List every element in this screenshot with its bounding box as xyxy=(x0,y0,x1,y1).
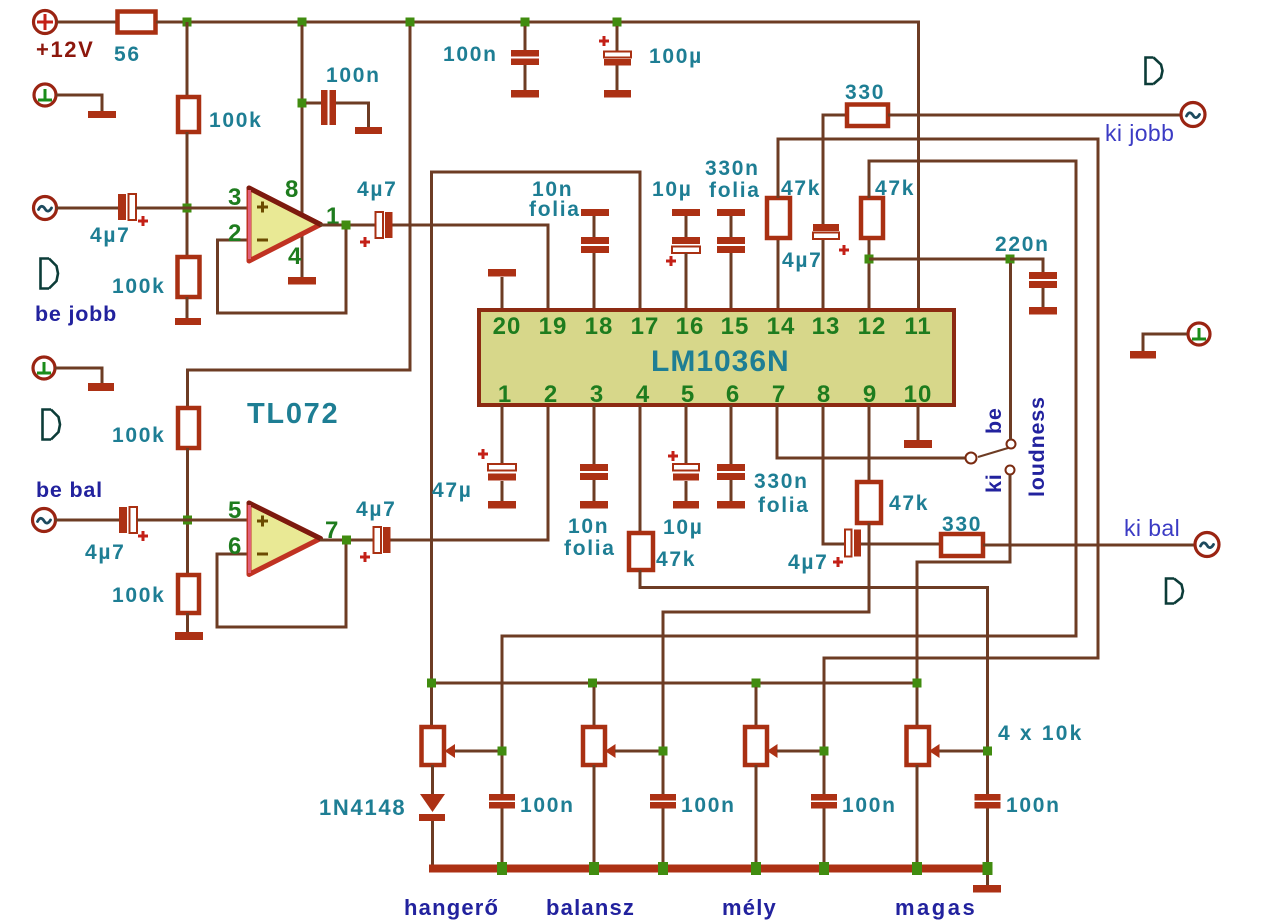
svg-text:LM1036N: LM1036N xyxy=(651,345,790,378)
arrow icon output left xyxy=(1166,579,1183,604)
IC LM1036N body xyxy=(479,310,954,405)
output circle ki jobb xyxy=(1181,103,1205,127)
node junction xyxy=(298,99,307,108)
svg-text:4 x 10k: 4 x 10k xyxy=(998,722,1083,745)
svg-text:15: 15 xyxy=(721,313,750,340)
node junction xyxy=(820,747,829,756)
svg-text:ki bal: ki bal xyxy=(1124,515,1180,541)
wire switch be to loudness tap xyxy=(1009,263,1012,440)
svg-text:folia: folia xyxy=(758,494,810,517)
wire pin 4 to treble pot wiper xyxy=(640,570,988,794)
svg-text:+12V: +12V xyxy=(36,37,94,62)
capacitor 100n (top rail) xyxy=(511,26,539,98)
wire pin 4 riser xyxy=(639,405,642,533)
wire pin 17 to bottom pots bus xyxy=(432,172,641,727)
svg-text:11: 11 xyxy=(904,313,931,340)
pin numbers bottom row 1..10 xyxy=(498,381,933,408)
wire to ki bal xyxy=(983,544,1195,547)
wire op-amp1 output xyxy=(320,224,375,227)
wire xyxy=(823,808,826,868)
svg-text:4µ7: 4µ7 xyxy=(90,224,131,247)
capacitor 4u7 (pin 13 output) xyxy=(813,224,849,255)
capacitor 4u7 input right xyxy=(118,194,148,226)
ground bar xyxy=(88,111,116,118)
svg-text:330n: 330n xyxy=(754,470,809,493)
svg-text:4µ7: 4µ7 xyxy=(788,551,829,574)
resistor 100k (upper left ch) xyxy=(178,408,199,448)
resistor 47k (pin 14) xyxy=(767,198,790,238)
svg-text:be: be xyxy=(982,407,1006,434)
svg-text:1: 1 xyxy=(498,381,512,408)
capacitor 330n folia (pin 6) xyxy=(717,405,745,509)
svg-text:4: 4 xyxy=(288,243,302,270)
diode 1N4148 xyxy=(419,765,445,866)
svg-text:100n: 100n xyxy=(1006,794,1061,817)
svg-text:16: 16 xyxy=(676,313,705,340)
svg-text:folia: folia xyxy=(564,537,616,560)
op-amp U1A triangle xyxy=(249,188,321,261)
node junction xyxy=(497,862,507,875)
svg-text:5: 5 xyxy=(228,497,242,524)
wire pin 10 xyxy=(917,405,920,440)
node junction xyxy=(183,18,192,27)
node junction xyxy=(298,18,307,27)
capacitor 4u7 output left xyxy=(360,527,391,562)
node junction xyxy=(406,18,415,27)
svg-text:100k: 100k xyxy=(112,424,166,447)
wire pin 8 riser xyxy=(823,405,845,544)
svg-text:17: 17 xyxy=(631,313,660,340)
ground terminal mid right xyxy=(1188,323,1210,345)
node junction xyxy=(183,204,192,213)
svg-text:2: 2 xyxy=(544,381,558,408)
svg-text:1N4148: 1N4148 xyxy=(319,795,406,820)
svg-text:10n: 10n xyxy=(568,515,609,538)
wire xyxy=(55,519,119,522)
wire pin 7 to loudness switch xyxy=(777,405,966,458)
wire xyxy=(986,808,989,885)
svg-text:4: 4 xyxy=(636,381,650,408)
node junction xyxy=(819,862,829,875)
svg-text:folia: folia xyxy=(529,198,581,221)
capacitor 100n (balance wiper) xyxy=(650,794,676,809)
wire op-amp1 output to IC pin 19 xyxy=(393,225,549,310)
resistor 100k (lower right ch) xyxy=(178,257,200,297)
wire xyxy=(1143,334,1187,351)
wire pin 12 to volume pot wiper xyxy=(502,161,1076,794)
wire xyxy=(186,132,189,257)
wire op-amp supply riser pin 8 and ground xyxy=(301,25,304,277)
capacitor 100u electrolytic (top rail) xyxy=(599,26,631,98)
potentiometer P2 balansz xyxy=(583,687,659,866)
wire loudness tap xyxy=(869,258,1010,261)
node junction xyxy=(342,536,351,545)
ground bus xyxy=(429,865,991,873)
ground bar xyxy=(175,632,203,640)
svg-text:100k: 100k xyxy=(112,275,166,298)
svg-text:ki: ki xyxy=(982,473,1006,493)
wire to op-amp pin 3 xyxy=(136,207,249,210)
wire xyxy=(186,448,189,575)
svg-text:loudness: loudness xyxy=(1025,396,1049,497)
svg-text:balansz: balansz xyxy=(546,895,635,920)
svg-text:330: 330 xyxy=(845,81,885,104)
node junction xyxy=(498,747,507,756)
svg-text:100k: 100k xyxy=(112,584,166,607)
node junction xyxy=(865,255,874,264)
wire op-amp1 feedback pin 2 xyxy=(218,225,347,313)
ground terminal left mid xyxy=(33,357,55,379)
capacitor 330n folia (pin 15) xyxy=(717,209,745,310)
ground terminal top left xyxy=(34,84,56,106)
wire xyxy=(55,368,102,383)
ground bar xyxy=(175,318,201,325)
node junction xyxy=(751,862,761,875)
capacitor 100n (bass wiper) xyxy=(811,794,837,809)
node junction xyxy=(183,516,192,525)
svg-text:10: 10 xyxy=(904,381,933,408)
node junction xyxy=(613,18,622,27)
arrow icon output right xyxy=(1146,58,1163,85)
node junction xyxy=(659,747,668,756)
svg-text:10µ: 10µ xyxy=(652,178,693,201)
resistor 330 (output right) xyxy=(847,105,888,127)
svg-text:12: 12 xyxy=(858,313,887,340)
svg-text:100n: 100n xyxy=(520,794,575,817)
node junction xyxy=(427,679,436,688)
ground bar pin 20 xyxy=(488,269,516,277)
svg-text:56: 56 xyxy=(114,43,141,66)
svg-text:19: 19 xyxy=(539,313,568,340)
wire xyxy=(57,21,117,24)
wire pin 14 riser xyxy=(777,238,780,310)
svg-text:100µ: 100µ xyxy=(649,45,703,68)
svg-text:13: 13 xyxy=(812,313,841,340)
svg-text:100k: 100k xyxy=(209,109,263,132)
wire pot supply bus xyxy=(432,682,918,685)
capacitor 10n folia (pin 18) xyxy=(581,209,609,310)
wire xyxy=(501,808,504,868)
pin numbers top row 20..11 xyxy=(493,313,932,340)
svg-text:47k: 47k xyxy=(656,548,696,571)
capacitor 100n (op-amp bypass) xyxy=(306,90,382,134)
loudness switch xyxy=(966,440,1016,475)
svg-text:8: 8 xyxy=(817,381,831,408)
svg-text:4µ7: 4µ7 xyxy=(85,541,126,564)
svg-text:TL072: TL072 xyxy=(247,398,339,430)
node junction xyxy=(658,862,668,875)
capacitor 4u7 output right xyxy=(360,212,393,247)
resistor 47k (pin 4) xyxy=(629,533,653,570)
potentiometer P3 mely xyxy=(745,687,820,866)
wire op-amp2 output to IC pin 2 xyxy=(391,405,549,540)
ground bar xyxy=(1130,351,1156,359)
ground bar (bottom right) xyxy=(973,885,1001,893)
wire xyxy=(186,297,189,318)
capacitor 10u electrolytic (pin 16) xyxy=(666,209,700,310)
capacitor 100n (treble wiper) xyxy=(975,794,1001,809)
wire pin 13 riser xyxy=(822,239,825,310)
wire to op-amp pin 5 xyxy=(137,519,249,522)
svg-text:3: 3 xyxy=(590,381,604,408)
arrow icon input right xyxy=(41,259,59,289)
svg-text:be jobb: be jobb xyxy=(35,302,117,326)
svg-text:100n: 100n xyxy=(443,43,498,66)
svg-text:10µ: 10µ xyxy=(663,516,704,539)
node junction xyxy=(589,862,599,875)
resistor 47k (pin 12) xyxy=(861,198,883,238)
svg-text:6: 6 xyxy=(228,533,242,560)
node junction xyxy=(912,862,922,875)
ground bar xyxy=(288,277,316,285)
node junction xyxy=(588,679,597,688)
resistor 330 (output left) xyxy=(941,534,983,556)
wire xyxy=(662,808,665,868)
svg-text:mély: mély xyxy=(722,895,777,920)
svg-text:3: 3 xyxy=(228,184,242,211)
wire op-amp2 output xyxy=(320,539,373,542)
svg-text:9: 9 xyxy=(863,381,877,408)
wire pin 12 riser xyxy=(868,238,871,310)
wire to ki jobb xyxy=(888,114,1181,117)
capacitor 220n xyxy=(1010,259,1057,315)
capacitor 4u7 (pin 8 output) xyxy=(833,530,861,568)
svg-text:ki jobb: ki jobb xyxy=(1105,120,1174,146)
svg-text:2: 2 xyxy=(228,220,242,247)
node junction xyxy=(913,679,922,688)
node junction xyxy=(1006,255,1015,264)
svg-text:hangerő: hangerő xyxy=(404,895,499,920)
resistor 100k (lower left ch) xyxy=(178,575,199,613)
wire xyxy=(56,95,102,111)
svg-text:7: 7 xyxy=(772,381,786,408)
svg-text:6: 6 xyxy=(726,381,740,408)
svg-text:4µ7: 4µ7 xyxy=(782,249,823,272)
input source circle (be bal) xyxy=(33,509,56,532)
svg-text:folia: folia xyxy=(709,179,761,202)
wire xyxy=(186,613,189,632)
wire xyxy=(861,543,941,546)
wire switch ki down to bus xyxy=(917,475,1010,728)
node junction xyxy=(752,679,761,688)
node junction xyxy=(983,747,992,756)
svg-text:47k: 47k xyxy=(889,492,929,515)
power source +12V terminal xyxy=(34,11,57,34)
resistor 56 xyxy=(118,12,156,33)
svg-text:100n: 100n xyxy=(842,794,897,817)
node junction xyxy=(342,221,351,230)
svg-text:be bal: be bal xyxy=(36,478,103,502)
op-amp U1B triangle xyxy=(249,503,321,575)
svg-text:20: 20 xyxy=(493,313,522,340)
svg-text:5: 5 xyxy=(681,381,695,408)
ground bar xyxy=(88,383,114,391)
svg-text:330n: 330n xyxy=(705,157,760,180)
output circle ki bal xyxy=(1195,533,1219,557)
wire xyxy=(823,115,847,224)
capacitor 10n folia (pin 3) xyxy=(580,405,608,509)
wire pin 9 to balance pot wiper xyxy=(663,523,869,794)
svg-text:330: 330 xyxy=(942,513,982,536)
capacitor 100n (volume wiper) xyxy=(489,794,515,809)
node junction xyxy=(521,18,530,27)
potentiometer P4 magas xyxy=(907,727,984,866)
wire 100k bias chain right xyxy=(186,22,189,97)
svg-text:magas: magas xyxy=(895,895,977,920)
svg-text:8: 8 xyxy=(285,176,299,203)
node junction xyxy=(983,862,993,875)
capacitor 10u electrolytic (pin 5) xyxy=(668,405,699,509)
svg-text:47µ: 47µ xyxy=(432,479,473,502)
svg-text:4µ7: 4µ7 xyxy=(356,498,397,521)
capacitor 4u7 input left xyxy=(119,507,148,541)
svg-text:47k: 47k xyxy=(781,177,821,200)
svg-text:220n: 220n xyxy=(995,233,1050,256)
resistor 47k (pin 9) xyxy=(857,482,881,523)
wire pin 14 to bass pot wiper xyxy=(778,139,1098,794)
wire bias feed left channel xyxy=(188,26,411,408)
svg-text:47k: 47k xyxy=(875,177,915,200)
svg-text:4µ7: 4µ7 xyxy=(357,178,398,201)
arrow icon input left xyxy=(43,410,61,440)
svg-text:100n: 100n xyxy=(681,794,736,817)
wire +12V rail to IC pin 11 xyxy=(156,22,919,310)
input source circle (be jobb) xyxy=(34,197,57,220)
svg-text:18: 18 xyxy=(585,313,614,340)
potentiometer P1 hangero xyxy=(422,727,499,765)
wire pin 20 xyxy=(501,277,504,310)
wire xyxy=(56,207,118,210)
resistor 100k (upper right ch) xyxy=(178,97,199,132)
capacitor 47u electrolytic (pin 1) xyxy=(478,405,516,509)
svg-text:14: 14 xyxy=(767,313,796,340)
wire pin 9 riser xyxy=(868,405,871,482)
wire op-amp2 feedback pin 6 xyxy=(217,541,346,627)
ground bar pin 10 xyxy=(904,440,932,448)
svg-text:100n: 100n xyxy=(326,64,381,87)
